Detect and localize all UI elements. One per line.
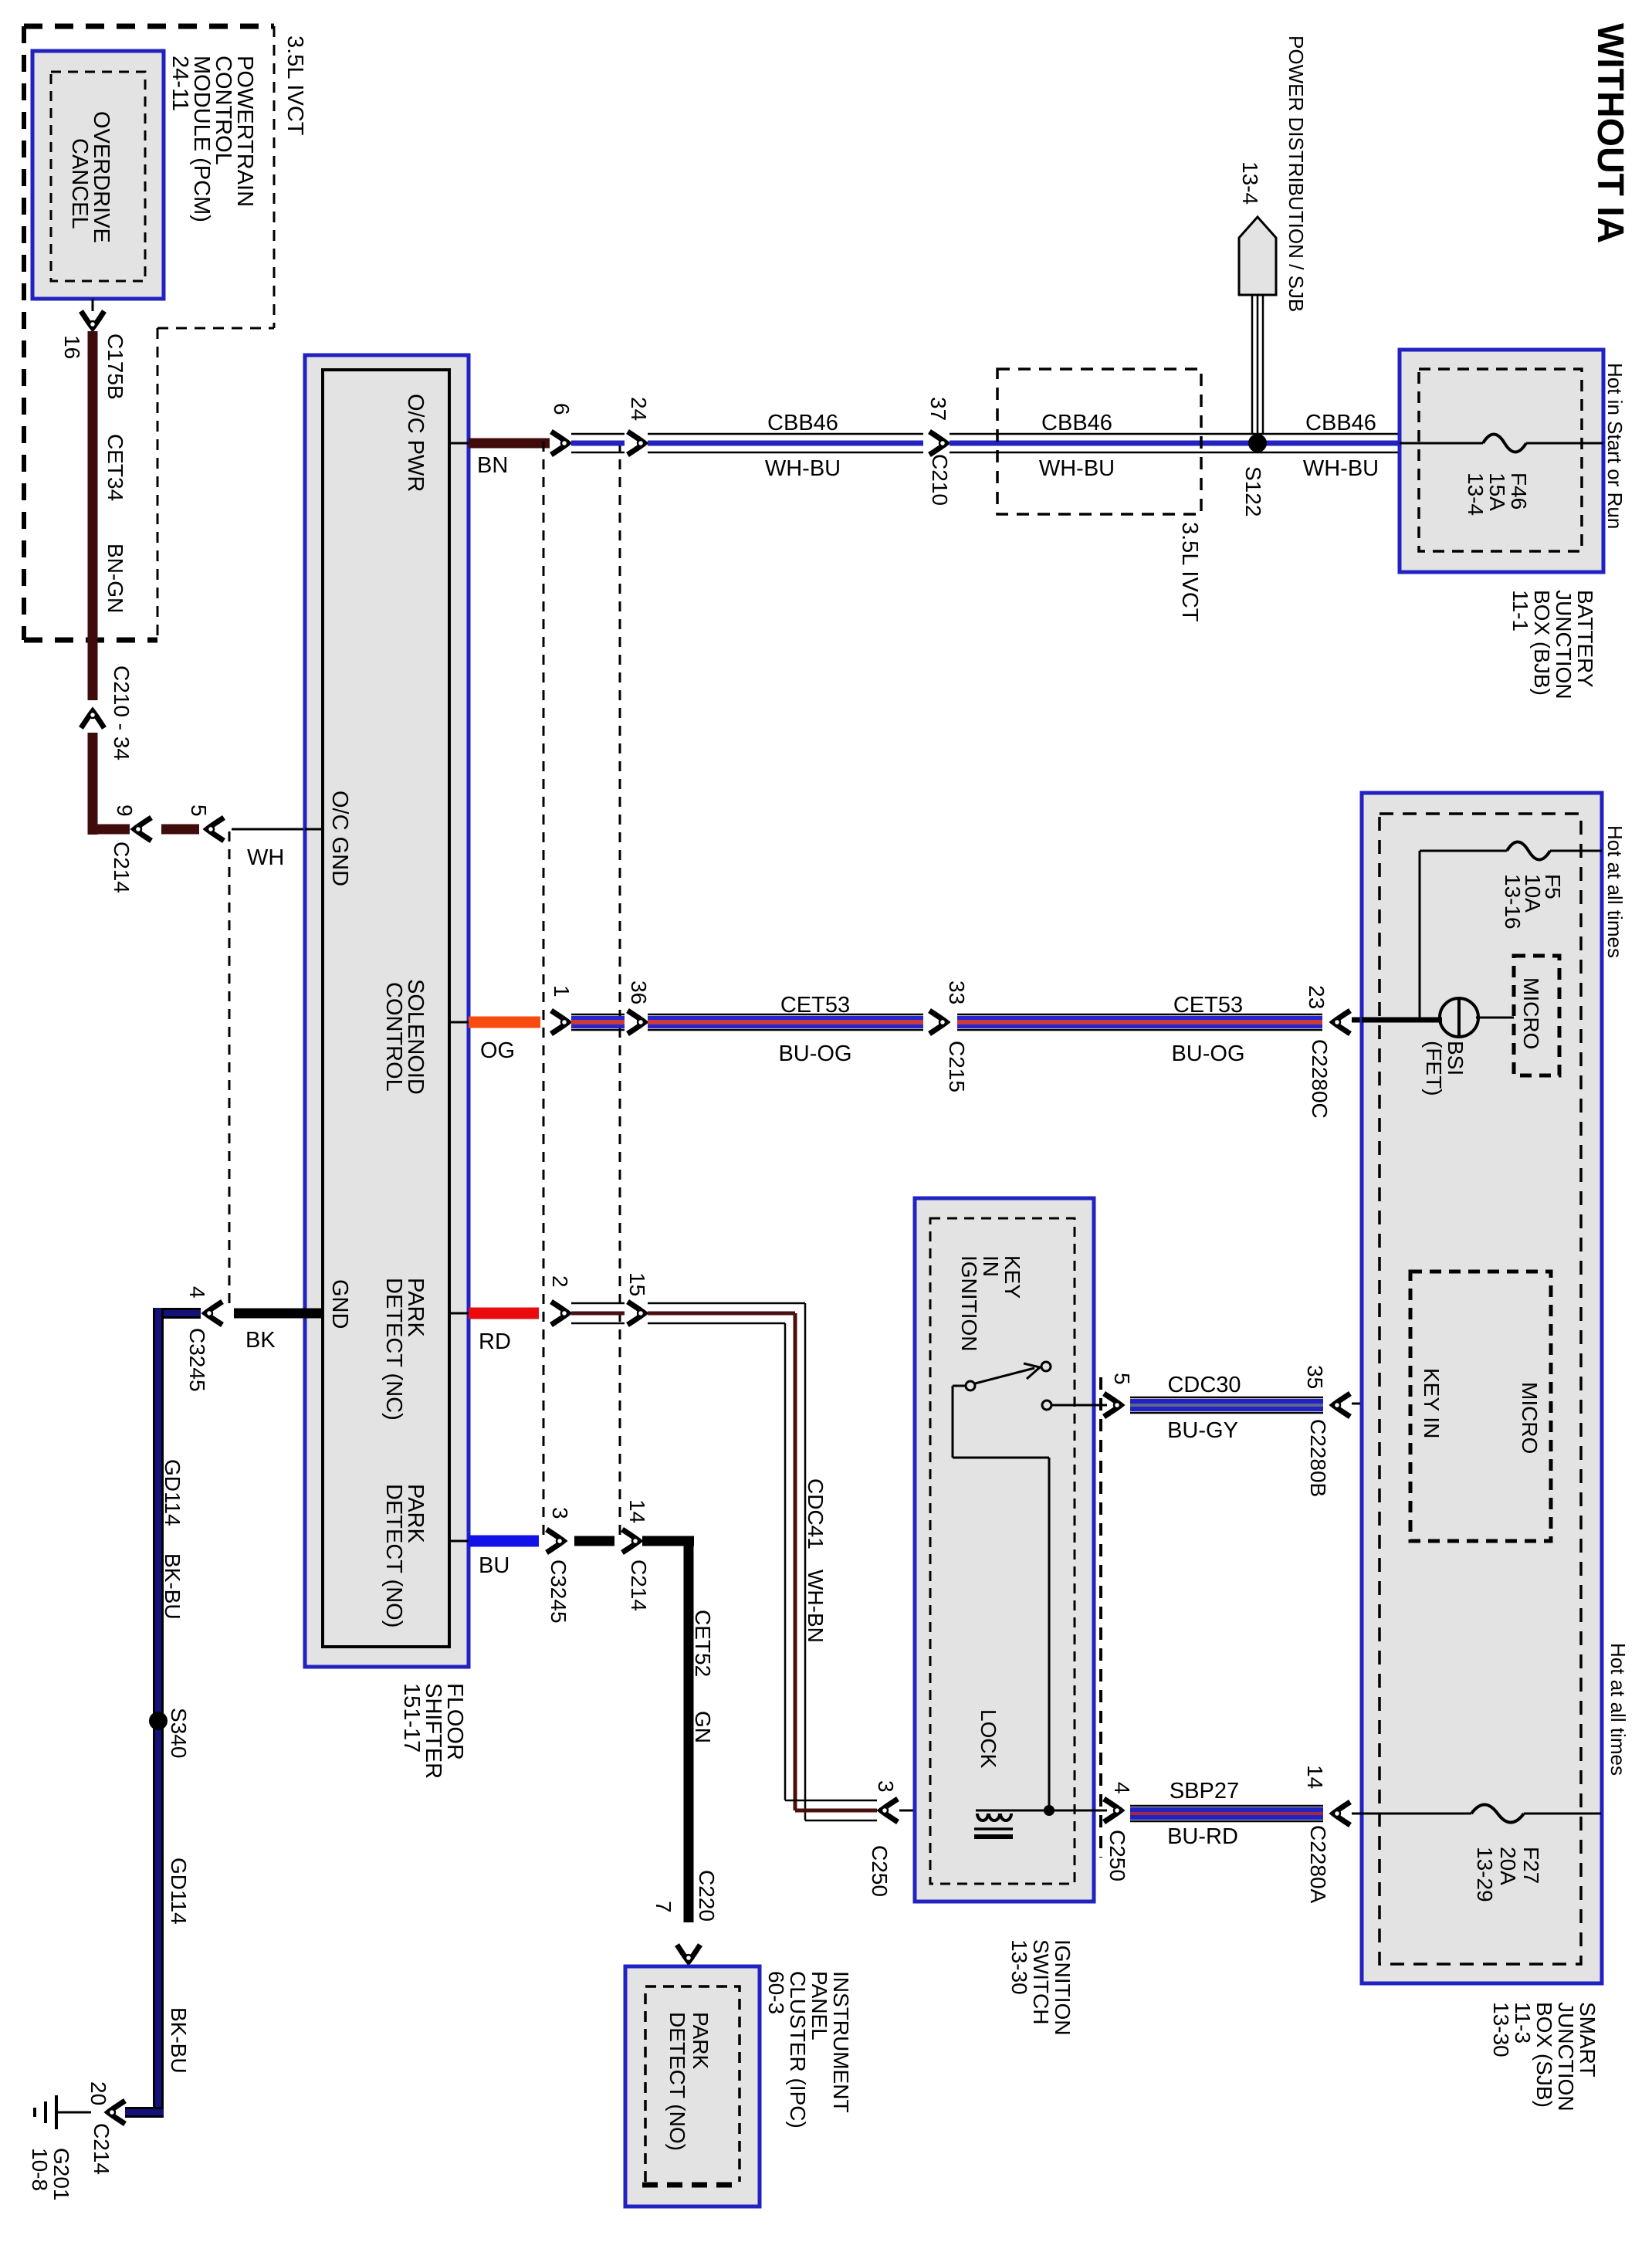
svg-text:C215: C215 <box>945 1041 969 1092</box>
svg-text:MICRO: MICRO <box>1519 977 1543 1049</box>
svg-text:KEY IN: KEY IN <box>1420 1368 1444 1438</box>
svg-text:BN: BN <box>477 453 508 478</box>
svg-text:CBB46: CBB46 <box>767 411 838 435</box>
wire CET53 BU-OG run 1 <box>648 1014 923 1016</box>
label BSI (FET) <box>1422 1041 1468 1096</box>
svg-text:IN: IN <box>979 1255 1003 1277</box>
svg-text:CET52: CET52 <box>691 1610 715 1677</box>
dashed box 3.5L IVCT (mid) <box>997 369 1201 514</box>
svg-text:11-1: 11-1 <box>1508 590 1532 632</box>
svg-text:C214: C214 <box>90 2123 113 2175</box>
module MICRO (KEY IN) dashed box <box>1410 1272 1551 1541</box>
svg-text:IGNITION: IGNITION <box>957 1255 981 1351</box>
svg-text:23: 23 <box>1305 985 1329 1009</box>
svg-text:CANCEL: CANCEL <box>67 138 92 229</box>
pin stub SOLENOID CONTROL OG <box>449 1021 469 1024</box>
svg-text:16: 16 <box>60 335 84 359</box>
component IGNITION SWITCH box <box>915 1198 1094 1902</box>
svg-text:G201: G201 <box>49 2148 73 2201</box>
svg-text:BN-GN: BN-GN <box>103 544 127 613</box>
svg-text:O/C GND: O/C GND <box>327 791 352 886</box>
svg-text:WH-BU: WH-BU <box>765 456 841 481</box>
connector C214 arrow pin 20 <box>108 2101 125 2124</box>
svg-text:DETECT (NO): DETECT (NO) <box>381 1484 406 1627</box>
connector C3245 arrow pin 6 <box>551 432 568 455</box>
svg-text:GN: GN <box>691 1711 715 1743</box>
wire SBP27 BU-RD <box>1130 1805 1323 1807</box>
svg-text:20A: 20A <box>1496 1847 1520 1885</box>
pin stub O/C PWR BN <box>449 442 469 445</box>
wire CDC30 BU-GY <box>1130 1397 1323 1399</box>
connector C3245 arrow pin 3 <box>547 1529 564 1553</box>
svg-text:F46: F46 <box>1507 472 1531 510</box>
transistor BSI (FET) <box>1362 998 1514 1037</box>
svg-text:CET53: CET53 <box>1173 993 1243 1018</box>
svg-text:CONTROL: CONTROL <box>381 982 406 1092</box>
label FLOOR SHIFTER 151-17 <box>399 1683 467 1779</box>
pin O/C GND (left) <box>305 828 324 831</box>
wire CET53 BU-OG run 2 <box>957 1014 1322 1016</box>
connector C214 arrow pin 36 <box>628 1011 645 1034</box>
svg-text:5: 5 <box>187 804 211 817</box>
wire into ignition switch <box>899 1810 976 1812</box>
svg-text:14: 14 <box>625 1499 649 1523</box>
wire WH-BU segment <box>571 433 625 435</box>
svg-text:9: 9 <box>113 804 137 817</box>
svg-text:37: 37 <box>926 397 950 421</box>
svg-text:WH: WH <box>247 845 284 870</box>
fuse F46 15A <box>1400 435 1603 452</box>
svg-text:CBB46: CBB46 <box>1305 411 1376 435</box>
connector C250 arrow pin 4 <box>1104 1799 1121 1822</box>
svg-text:C214: C214 <box>627 1560 651 1611</box>
switch contacts key-in <box>966 1362 1051 1410</box>
svg-text:GND: GND <box>327 1279 352 1329</box>
svg-text:PANEL: PANEL <box>807 1971 831 2040</box>
svg-text:PARK: PARK <box>689 2012 713 2069</box>
svg-text:GD114: GD114 <box>167 1858 191 1925</box>
svg-text:2: 2 <box>548 1275 572 1288</box>
svg-text:C210 - 34: C210 - 34 <box>110 665 134 760</box>
wire inside ignition switch to lock <box>953 1386 1049 1810</box>
component BATTERY JUNCTION BOX (BJB) <box>1400 350 1603 572</box>
svg-text:BOX (BJB): BOX (BJB) <box>1530 590 1554 696</box>
svg-text:(FET): (FET) <box>1422 1041 1446 1096</box>
svg-text:4: 4 <box>1110 1782 1134 1794</box>
svg-text:13-30: 13-30 <box>1007 1939 1031 1995</box>
svg-text:SBP27: SBP27 <box>1170 1779 1239 1803</box>
connector C2280C arrow pin 23 <box>1333 1011 1350 1034</box>
svg-text:MICRO: MICRO <box>1518 1382 1542 1454</box>
label F27 20A 13-29 <box>1473 1847 1543 1902</box>
wire BN-GN below C210 <box>88 733 98 835</box>
label BATTERY JUNCTION BOX (BJB) 11-1 <box>1508 590 1597 699</box>
svg-text:WITHOUT IA: WITHOUT IA <box>1589 23 1630 243</box>
svg-text:13-4: 13-4 <box>1464 472 1488 516</box>
svg-text:Hot at all times: Hot at all times <box>1603 825 1627 958</box>
label F46 15A 13-4 <box>1464 472 1531 516</box>
wire from OVERDRIVE CANCEL pin 16 <box>92 299 94 311</box>
wire to ground <box>58 2112 91 2114</box>
svg-text:20: 20 <box>86 2081 110 2105</box>
connector C210 arrow pin 37 <box>929 432 946 455</box>
svg-text:14: 14 <box>1303 1765 1327 1789</box>
component SMART JUNCTION BOX (SJB) <box>1362 793 1602 1983</box>
pin stub PARK DETECT (NC) RD <box>449 1312 469 1315</box>
svg-text:3.5L IVCT: 3.5L IVCT <box>283 36 307 136</box>
label INSTRUMENT PANEL CLUSTER (IPC) 60-3 <box>764 1971 853 2129</box>
svg-text:BOX (SJB): BOX (SJB) <box>1532 2002 1556 2108</box>
svg-text:35: 35 <box>1303 1365 1327 1389</box>
switch OVERDRIVE CANCEL (in PCM) <box>32 51 164 299</box>
off-page arrow POWER DISTRIBUTION / SJB 13-4 <box>1239 217 1276 434</box>
svg-text:C175B: C175B <box>103 334 127 400</box>
svg-text:C220: C220 <box>695 1870 719 1922</box>
svg-text:Hot in Start or Run: Hot in Start or Run <box>1603 363 1627 529</box>
svg-text:13-16: 13-16 <box>1501 874 1525 930</box>
svg-text:WH-BU: WH-BU <box>1303 456 1379 481</box>
svg-text:F27: F27 <box>1519 1847 1543 1884</box>
svg-text:SWITCH: SWITCH <box>1029 1939 1053 2024</box>
wire CBB46 WH-BU run 2 <box>950 433 1400 435</box>
svg-text:6: 6 <box>550 403 574 415</box>
wire BN-GN short segment <box>161 825 199 835</box>
svg-text:13-4: 13-4 <box>1238 161 1262 205</box>
svg-text:WH-BN: WH-BN <box>804 1570 828 1643</box>
svg-text:C3245: C3245 <box>185 1328 209 1392</box>
wire KEY IN inside SJB <box>1352 1397 1410 1410</box>
connector C3245 arrow pin 2 <box>551 1302 568 1325</box>
connector C220 arrow pin 7 <box>677 1945 700 1962</box>
svg-text:BSI: BSI <box>1444 1041 1468 1075</box>
svg-text:Hot at all times: Hot at all times <box>1606 1643 1630 1776</box>
component FLOOR SHIFTER box <box>305 355 469 1667</box>
wire WH-BN segment <box>571 1302 625 1305</box>
svg-text:LOCK: LOCK <box>977 1709 1000 1769</box>
svg-text:BK-BU: BK-BU <box>167 2007 191 2074</box>
svg-text:OG: OG <box>480 1038 515 1063</box>
svg-text:BU-OG: BU-OG <box>778 1041 851 1066</box>
svg-text:C250: C250 <box>1105 1830 1129 1881</box>
connector C214 arrow pin 24 <box>628 432 645 455</box>
svg-text:4: 4 <box>185 1286 209 1299</box>
module MICRO (BSI) dashed box <box>1514 956 1559 1075</box>
wire CDC41 WH-BN run <box>648 1303 877 1820</box>
connector C215 arrow pin 33 <box>929 1011 946 1034</box>
connector C3245 dashed line <box>543 442 545 1541</box>
svg-text:DETECT (NC): DETECT (NC) <box>381 1278 406 1421</box>
connector C210 arrow (pin 34) <box>81 711 104 728</box>
svg-text:7: 7 <box>652 1901 675 1913</box>
svg-text:3: 3 <box>874 1780 898 1793</box>
connector C214 arrow pin 15 <box>628 1302 645 1325</box>
svg-text:C210: C210 <box>928 454 952 506</box>
svg-text:BK: BK <box>245 1328 276 1353</box>
label IGNITION SWITCH 13-30 <box>1007 1939 1075 2035</box>
wire GN segment <box>574 1536 614 1546</box>
connector C2280A arrow pin 14 <box>1333 1802 1350 1825</box>
svg-text:13-29: 13-29 <box>1473 1847 1497 1902</box>
label POWERTRAIN CONTROL MODULE (PCM) 24-11 <box>168 56 257 222</box>
svg-text:CLUSTER (IPC): CLUSTER (IPC) <box>786 1971 810 2129</box>
svg-text:3: 3 <box>548 1507 572 1519</box>
junction at lock wire <box>1044 1805 1055 1816</box>
connector C3245 arrow pin 4 <box>205 1302 222 1325</box>
wire CBB46 WH-BU run 1 <box>648 433 923 435</box>
wire BU-OG segment <box>571 1014 625 1016</box>
connector C214 arrow (pin 9) <box>134 818 151 841</box>
svg-text:BU-RD: BU-RD <box>1167 1824 1238 1849</box>
svg-text:60-3: 60-3 <box>764 1971 788 2014</box>
svg-text:151-17: 151-17 <box>399 1683 424 1753</box>
connector C250 arrow pin 3 <box>881 1799 898 1822</box>
svg-text:C2280A: C2280A <box>1306 1825 1330 1904</box>
svg-text:1: 1 <box>550 985 574 997</box>
svg-text:3.5L IVCT: 3.5L IVCT <box>1177 522 1202 622</box>
connector C214 dashed line <box>619 442 621 1541</box>
connector C250 arrow pin 5 <box>1104 1394 1121 1417</box>
splice S122 <box>1248 434 1267 452</box>
svg-text:SMART: SMART <box>1576 2002 1600 2078</box>
svg-text:JUNCTION: JUNCTION <box>1554 2002 1578 2112</box>
svg-text:13-30: 13-30 <box>1489 2002 1513 2057</box>
svg-text:15: 15 <box>625 1272 649 1296</box>
svg-text:GD114: GD114 <box>161 1459 184 1526</box>
svg-text:BU-GY: BU-GY <box>1167 1418 1238 1443</box>
svg-text:O/C PWR: O/C PWR <box>403 394 428 492</box>
svg-text:C2280C: C2280C <box>1308 1039 1332 1119</box>
svg-text:CDC30: CDC30 <box>1167 1373 1241 1397</box>
svg-text:DETECT (NO): DETECT (NO) <box>665 2012 689 2151</box>
svg-text:BATTERY: BATTERY <box>1573 590 1597 688</box>
svg-text:BU: BU <box>479 1553 509 1578</box>
fuse F5 10A <box>1420 842 1602 1018</box>
component INSTRUMENT PANEL CLUSTER (IPC) box <box>625 1966 760 2206</box>
connector C3245 dashed line (left) <box>229 831 231 1311</box>
svg-text:33: 33 <box>945 980 969 1004</box>
wire CET52 GN down to IPC <box>642 1536 694 1922</box>
connector C2280B arrow pin 35 <box>1333 1394 1350 1417</box>
label KEY IN IGNITION <box>957 1255 1024 1351</box>
svg-text:BK-BU: BK-BU <box>161 1553 184 1620</box>
lock coil symbol LOCK <box>974 1810 1107 1837</box>
wire GD114 BK-BU <box>125 1308 201 2112</box>
connector C250 dashed line (right) <box>1099 1377 1102 1858</box>
module boundary 3.5L IVCT / PCM dashed outline <box>24 26 274 640</box>
svg-text:RD: RD <box>479 1329 511 1354</box>
key-in switch output pin 5 <box>1051 1404 1107 1407</box>
svg-text:C250: C250 <box>868 1845 892 1897</box>
connector C3245 arrow pin 1 <box>551 1011 568 1034</box>
label SMART JUNCTION BOX (SJB) 11-3 13-30 <box>1489 2002 1600 2112</box>
svg-text:POWER DISTRIBUTION / SJB: POWER DISTRIBUTION / SJB <box>1285 36 1308 312</box>
svg-text:CET34: CET34 <box>103 434 127 501</box>
svg-text:CDC41: CDC41 <box>804 1478 828 1549</box>
pin stub PARK DETECT (NO) BU <box>449 1540 469 1543</box>
svg-text:5: 5 <box>1110 1373 1134 1385</box>
svg-text:C3245: C3245 <box>547 1560 570 1624</box>
svg-text:IGNITION: IGNITION <box>1051 1939 1075 2035</box>
wire WH to O/C GND <box>232 828 324 831</box>
svg-text:BU-OG: BU-OG <box>1171 1041 1244 1066</box>
connector C175B arrow (pin 16) <box>81 311 104 328</box>
connector C214 arrow pin 14 <box>622 1529 639 1553</box>
svg-text:KEY: KEY <box>1000 1255 1024 1299</box>
svg-text:CBB46: CBB46 <box>1041 411 1112 435</box>
ground G201 10-8 <box>35 2095 56 2129</box>
svg-text:24: 24 <box>627 397 651 421</box>
label F5 10A 13-16 <box>1501 874 1565 930</box>
svg-text:WH-BU: WH-BU <box>1039 456 1115 481</box>
svg-text:S340: S340 <box>167 1708 191 1758</box>
splice S340 <box>149 1712 168 1730</box>
connector C3245 arrow (pin 5) <box>207 818 224 841</box>
svg-text:C2280B: C2280B <box>1306 1419 1330 1497</box>
svg-text:JUNCTION: JUNCTION <box>1552 590 1576 699</box>
fuse F27 20A <box>1352 1805 1601 1823</box>
svg-text:15A: 15A <box>1485 472 1509 511</box>
svg-text:36: 36 <box>627 980 651 1004</box>
pin GND stub BK (left) <box>234 1309 324 1319</box>
wire BSI to C2280C <box>1352 1018 1442 1023</box>
wire CET34 BN-GN vertical <box>88 331 98 700</box>
svg-text:C214: C214 <box>110 842 134 893</box>
switch PARK DETECT (NO) in IPC <box>665 2012 713 2151</box>
svg-text:S122: S122 <box>1241 466 1265 516</box>
svg-text:24-11: 24-11 <box>168 56 192 111</box>
svg-text:10-8: 10-8 <box>28 2148 52 2191</box>
svg-text:11-3: 11-3 <box>1511 2002 1535 2044</box>
svg-text:CET53: CET53 <box>780 993 850 1018</box>
svg-text:INSTRUMENT: INSTRUMENT <box>829 1971 853 2113</box>
